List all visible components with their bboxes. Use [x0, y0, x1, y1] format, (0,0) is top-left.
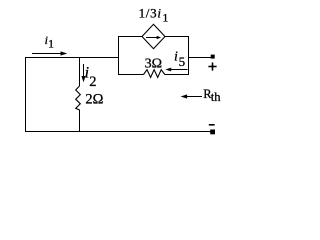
svg-text:1/3i1: 1/3i1 [139, 6, 170, 25]
svg-text:th: th [211, 90, 221, 104]
svg-text:2Ω: 2Ω [85, 92, 103, 108]
svg-text:5: 5 [179, 54, 186, 69]
svg-text:1: 1 [48, 37, 54, 51]
svg-text:i: i [174, 50, 178, 65]
svg-text:3Ω: 3Ω [145, 57, 162, 72]
svg-text:2: 2 [89, 74, 96, 90]
